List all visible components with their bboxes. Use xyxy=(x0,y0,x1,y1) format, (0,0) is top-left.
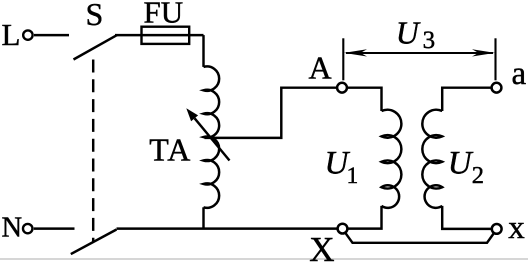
TA adjustment arrow xyxy=(195,118,230,160)
fuse FU xyxy=(142,27,190,44)
autotransformer TA winding xyxy=(204,66,220,207)
svg-text:2: 2 xyxy=(472,162,484,189)
terminal N xyxy=(23,224,32,233)
wire xyxy=(442,88,491,111)
svg-text:L: L xyxy=(2,17,21,52)
wire (bottom main) xyxy=(117,227,338,229)
wire xyxy=(347,88,382,111)
wire (tap to A) xyxy=(205,88,337,138)
svg-text:X: X xyxy=(309,230,334,262)
wire xyxy=(34,34,69,36)
wire xyxy=(442,206,492,229)
scan artifact line xyxy=(0,258,528,260)
svg-text:a: a xyxy=(512,56,527,92)
svg-text:TA: TA xyxy=(149,131,191,167)
dimension U3 extension line left xyxy=(342,38,344,80)
terminal X xyxy=(338,224,348,234)
svg-text:U: U xyxy=(396,14,421,50)
svg-text:S: S xyxy=(86,0,104,32)
terminal a xyxy=(492,83,502,93)
svg-text:FU: FU xyxy=(144,0,184,30)
winding U1 xyxy=(382,110,402,208)
svg-text:1: 1 xyxy=(347,163,359,189)
svg-text:3: 3 xyxy=(423,27,436,54)
terminal x xyxy=(492,224,502,234)
wire xyxy=(202,35,204,67)
switch linkage (dashed) xyxy=(92,60,94,243)
terminal A xyxy=(337,83,347,93)
svg-text:U: U xyxy=(448,145,474,181)
svg-text:N: N xyxy=(2,212,23,243)
wire xyxy=(202,207,204,228)
wire xyxy=(34,227,75,229)
terminal L xyxy=(23,30,32,39)
wire xyxy=(115,34,204,36)
wire xyxy=(348,206,382,229)
dimension U3 extension line right xyxy=(494,38,496,80)
switch S blade (N pole) xyxy=(71,230,117,255)
svg-text:x: x xyxy=(508,210,525,246)
winding U2 xyxy=(422,110,442,208)
svg-text:A: A xyxy=(309,50,332,86)
switch S blade (L pole) xyxy=(74,35,118,59)
dimension U3 arrow line xyxy=(346,52,493,54)
wire (X to x link) xyxy=(345,233,494,243)
